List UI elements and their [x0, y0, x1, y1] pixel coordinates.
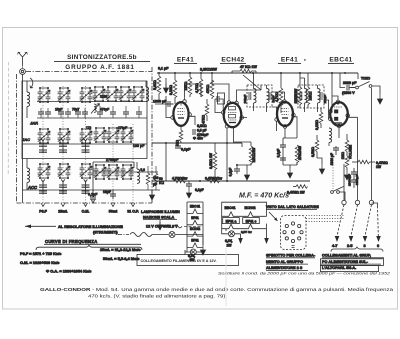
tube ECH42 V2 [221, 101, 243, 128]
svg-text:0,47MΩ/1w: 0,47MΩ/1w [205, 177, 223, 181]
svg-text:47 KΩ 1W: 47 KΩ 1W [240, 65, 257, 69]
volume potentiometer 1M [341, 134, 353, 180]
grid resistor 0,1M [169, 73, 177, 104]
trimmer bank row1 g [132, 86, 145, 102]
trimmer bank row3 f [121, 127, 134, 143]
AVC arrow [163, 78, 168, 93]
antenna terminal [20, 69, 26, 75]
fil box EF41c [243, 218, 260, 224]
svg-text:12 V OPPURE 6 V: 12 V OPPURE 6 V [146, 225, 178, 229]
fil box EF41a [223, 218, 240, 224]
trimmer bank row4 a [38, 163, 51, 179]
svg-text:EF41: EF41 [177, 57, 194, 64]
svg-text:EF41: EF41 [191, 216, 199, 220]
svg-text:172: 172 [86, 126, 92, 130]
IF value resistor 0,47M [287, 185, 308, 195]
svg-text:P6.F: P6.F [39, 210, 47, 214]
svg-text:EF41 c: EF41 c [246, 219, 257, 223]
svg-text:1000 pF: 1000 pF [153, 100, 167, 104]
svg-text:0,1MΩ 1W: 0,1MΩ 1W [209, 152, 213, 169]
svg-text:GALLO-CONDOR - Mod. 54. Una ga: GALLO-CONDOR - Mod. 54. Una gamma onde m… [40, 287, 393, 292]
svg-text:50mt. = 5,5-6,4 Mc/s: 50mt. = 5,5-6,4 Mc/s [103, 256, 139, 261]
EF41 stage wiring group [166, 84, 208, 146]
oscillator coil box [93, 162, 134, 197]
svg-text:100pF: 100pF [294, 94, 298, 103]
curve di frequenza label [44, 239, 141, 244]
dial lamp wire [118, 235, 203, 246]
dial lamp [169, 232, 175, 238]
svg-text:VISTO DAL LATO SALDATURE: VISTO DAL LATO SALDATURE [266, 205, 319, 209]
trimmer bank row3 e [107, 127, 120, 143]
SKELETON6 [152, 137, 310, 199]
wire bus corner down [357, 73, 359, 79]
svg-text:2700pF: 2700pF [106, 158, 119, 162]
AVC cap 0,1uF [175, 142, 191, 152]
filament ladder box [187, 202, 203, 252]
label EF41 first [174, 57, 197, 64]
filament EBC41 [187, 205, 203, 214]
svg-text:15KΩ: 15KΩ [309, 91, 313, 100]
osc gang section C5 [59, 179, 67, 194]
svg-text:KΩ: KΩ [159, 181, 164, 185]
osc gang section C6 [82, 179, 90, 194]
mains switch [331, 187, 345, 201]
svg-text:AL REGOLATORE ILLUMINAZIONE: AL REGOLATORE ILLUMINAZIONE [58, 224, 123, 229]
parallel filament box [222, 202, 267, 229]
wire osc diagonal [243, 75, 261, 90]
coupling caps 10000pF [348, 168, 360, 188]
decoupling arrow [149, 190, 154, 200]
svg-text:Sostituire il cond. da 2000 pF: Sostituire il cond. da 2000 pF con uno d… [218, 272, 391, 276]
antenna [18, 52, 28, 68]
ladder pilot lamp [188, 249, 203, 262]
pushbutton 50mt [109, 203, 118, 214]
oscillator coil L2 [27, 159, 30, 191]
resistor 15K [306, 73, 312, 108]
socket pointer arrow [269, 212, 278, 221]
EF41 IF stage resistors group [272, 92, 302, 178]
fil hump row2 a [225, 224, 237, 229]
filament ECH42 [187, 227, 203, 236]
svg-text:5,6: 5,6 [140, 168, 145, 172]
bottom left text group [222, 202, 269, 247]
junction dots bus [158, 72, 346, 74]
fil hump row1 b [245, 212, 257, 217]
svg-text:22KΩ/1W: 22KΩ/1W [252, 147, 256, 162]
tuning gang dotted link lines [43, 86, 133, 206]
trimmer bank row3 c [80, 128, 93, 144]
svg-text:100: 100 [153, 176, 159, 180]
svg-text:GRUPPO A.F. 1881: GRUPPO A.F. 1881 [65, 64, 134, 71]
SKELETON8 [266, 205, 384, 272]
dial lamp circuit group [185, 202, 203, 262]
label EBC41 [328, 57, 354, 64]
scan fold line left [7, 62, 10, 175]
regolatore arrow line [25, 225, 56, 229]
AGC line wire [152, 180, 310, 182]
trimmer bank row1 a [38, 87, 51, 103]
spinotto text block [266, 254, 316, 271]
svg-text:5,6KΩ: 5,6KΩ [153, 80, 157, 90]
B+ top bus wire [157, 72, 358, 74]
svg-text:COLLEGAMENTI AL GRUP,: COLLEGAMENTI AL GRUP, [322, 254, 371, 258]
svg-text:75μT: 75μT [72, 108, 79, 112]
tone cap 2000 pF [340, 73, 357, 95]
svg-text:0,1MΩ: 0,1MΩ [315, 120, 319, 130]
trimmer bank row1 f [119, 86, 132, 102]
svg-text:SPINOTTO PER COLLEGA-: SPINOTTO PER COLLEGA- [266, 254, 316, 258]
svg-text:25mt.: 25mt. [58, 210, 67, 214]
svg-text:JAF.: JAF. [30, 121, 38, 126]
svg-text:MENTO AL GRUPPO: MENTO AL GRUPPO [266, 260, 303, 264]
tuning gang section C1 [39, 138, 47, 153]
screen resistor 5,6K [153, 73, 161, 101]
plug pin 1 [342, 200, 346, 204]
svg-text:EBC41: EBC41 [329, 57, 352, 64]
svg-text:JAC: JAC [22, 137, 30, 142]
svg-text:Φ O.A. = 1380÷1054 Kc/s: Φ O.A. = 1380÷1054 Kc/s [46, 269, 91, 274]
AVC bus wire [152, 142, 242, 144]
45V label [193, 137, 203, 141]
fil hump row1 a [225, 212, 237, 217]
plug pin 3 [369, 200, 373, 204]
svg-text:L'ALTOPARL 5N-A.: L'ALTOPARL 5N-A. [322, 266, 356, 270]
svg-text:270pF: 270pF [118, 126, 127, 130]
scan fold line [225, 248, 227, 306]
collegamenti text block [321, 254, 385, 272]
coupling arrow [30, 78, 33, 88]
tuner enclosure group [22, 81, 160, 197]
AVC and AGC bus group [331, 88, 383, 252]
IF transformer T2 [294, 78, 328, 112]
screen resistor 22K/1W EF41b [275, 73, 283, 113]
dial lamp resistor [130, 233, 152, 237]
svg-text:110pF: 110pF [323, 95, 327, 104]
ladder ground [185, 250, 187, 255]
AF coupling resistor 0,47M [352, 160, 388, 169]
trimmer bank row1 e [106, 86, 119, 102]
plate resistor 4,7K [195, 73, 203, 97]
ECH42 stage components group [212, 80, 261, 143]
fil hump row2 b [245, 224, 257, 229]
cathode cap 0,1uF [229, 164, 241, 176]
tuning gang section C2 [59, 138, 67, 153]
wire antenna down [22, 74, 24, 203]
padder resistor 5,6K [140, 166, 149, 190]
svg-text:0,1MΩ: 0,1MΩ [169, 85, 173, 95]
svg-text:8: 8 [364, 244, 366, 248]
main supply bus group [157, 72, 358, 74]
RF coil L3 [146, 81, 149, 101]
svg-text:e: e [304, 58, 306, 62]
svg-text:EF41 a: EF41 a [226, 219, 237, 223]
trimmer bank row1 b [58, 87, 71, 103]
svg-text:TONO: TONO [361, 77, 371, 81]
svg-text:5000pF: 5000pF [355, 175, 359, 186]
cap 16uF [103, 190, 116, 199]
AF coil [329, 128, 332, 146]
svg-text:16μF: 16μF [103, 190, 111, 194]
svg-text:EBC41: EBC41 [190, 205, 201, 209]
dashed enclosure SINTONIZZATORE group [17, 67, 153, 203]
SKELETON7 [118, 210, 206, 255]
tone switch [351, 77, 381, 95]
svg-text:ECH42: ECH42 [190, 227, 201, 231]
svg-text:LAMPADINE ILLUMIN: LAMPADINE ILLUMIN [141, 210, 180, 214]
osc grid resistor 47K [202, 99, 209, 124]
svg-text:31 C.P.: 31 C.P. [127, 210, 139, 214]
plate resistor EF41b [294, 73, 302, 108]
arrow to lamps [157, 220, 162, 230]
SKELETON4 [202, 65, 276, 124]
trimmer bank row4 d [94, 164, 107, 180]
grid cap osc [215, 96, 223, 104]
cap 3300pF [330, 146, 339, 165]
wire AVC left down [165, 143, 167, 181]
svg-text:0,1 μF: 0,1 μF [158, 67, 169, 71]
svg-text:P6.F = 1571 ÷ 725 Kc/s: P6.F = 1571 ÷ 725 Kc/s [20, 251, 61, 256]
fil pilot lamp 6,3V 2W [222, 229, 241, 248]
svg-text:SINTONIZZATORE.5b: SINTONIZZATORE.5b [67, 54, 137, 61]
trimmer bank row1 c [80, 87, 93, 103]
filament EF41 [187, 216, 203, 225]
tuner inner bus wires [22, 102, 160, 191]
svg-text:3300 pF: 3300 pF [330, 153, 334, 165]
switch ground arrow [377, 94, 382, 104]
svg-text:0,1μF: 0,1μF [195, 188, 204, 192]
wires ECH42 group [275, 73, 313, 113]
svg-text:200pF: 200pF [243, 94, 247, 103]
label ECH42 [220, 57, 246, 64]
trimmer bank row3 a [38, 128, 51, 144]
cathode resistor 22K/1W [249, 142, 256, 165]
pot wiper dotted [332, 157, 334, 189]
filament EF41 b [187, 238, 203, 247]
svg-text:pF: pF [153, 183, 157, 187]
svg-text:25mt. = 11,2-12,2 Mc/s: 25mt. = 11,2-12,2 Mc/s [100, 247, 141, 252]
socket outline [281, 216, 307, 250]
plug leads dashed [337, 205, 378, 236]
svg-text:(STRUMENTI): (STRUMENTI) [93, 231, 118, 235]
wires ECH42 [212, 80, 261, 143]
svg-text:470pF: 470pF [100, 108, 109, 112]
tuning gang section C3 [82, 138, 90, 153]
AGC resistor 0,47M [199, 177, 223, 183]
svg-text:(1500 V: (1500 V [342, 91, 355, 95]
tube EF41 V3 [275, 100, 295, 128]
wire plate EF41 to bus [185, 84, 202, 97]
EBC41 stage wiring group [311, 73, 388, 200]
svg-text:6,3V 4w: 6,3V 4w [241, 230, 252, 234]
AGC cap ground [186, 181, 204, 198]
trimmer bank row1 d [93, 86, 106, 102]
svg-text:COLLEGAMENTO FILAMENTI A 6V: COLLEGAMENTO FILAMENTI A 6V E A 12V. [141, 259, 217, 263]
diode load 0,5M [311, 135, 325, 174]
SKELETON3 [39, 203, 139, 214]
output verticals to plug [344, 88, 378, 206]
fil arrows [238, 238, 269, 244]
wire grid EF41 [166, 96, 174, 118]
plug pin 2 [355, 200, 359, 204]
antenna input section [17, 52, 153, 203]
waveband pushbutton row [153, 67, 346, 108]
socket pins [283, 222, 303, 248]
svg-text:6: 6 [377, 244, 379, 248]
resistor 47K left of ECH42 [206, 73, 214, 99]
wires EBC41 [324, 73, 358, 138]
svg-text:PO ALIMENTATORE SUL-: PO ALIMENTATORE SUL- [322, 260, 369, 264]
dial lamps label [141, 210, 180, 220]
osc gang section C4 [39, 179, 47, 194]
svg-text:VOLUME: VOLUME [349, 144, 353, 159]
plug lead arrows [335, 236, 381, 242]
tube EBC41 V4 [329, 100, 350, 128]
socket view label [266, 205, 319, 209]
coupling cap 1000pF [153, 100, 174, 108]
svg-text:O.M.: O.M. [82, 210, 90, 214]
svg-text:2000 pF: 2000 pF [343, 81, 357, 85]
svg-text:0,5 μF: 0,5 μF [197, 129, 207, 133]
wires EF41b [272, 92, 297, 138]
svg-text:100 pF: 100 pF [133, 144, 145, 148]
cathode bypass 2700pF [190, 116, 209, 137]
coupling coil MC [91, 104, 100, 114]
svg-text:50mt: 50mt [109, 210, 118, 214]
antenna coil L1 [27, 81, 30, 118]
svg-text:0,1μF: 0,1μF [277, 149, 281, 158]
trimmer bank row4 b [58, 163, 71, 179]
svg-text:2130: 2130 [100, 95, 107, 99]
svg-text:10000pF: 10000pF [348, 174, 352, 186]
svg-text:270Ω/4W: 270Ω/4W [298, 145, 302, 160]
svg-text:4-7: 4-7 [332, 244, 338, 248]
svg-text:EBC41: EBC41 [225, 206, 236, 210]
title SINTONIZZATORE-5b [54, 54, 150, 61]
svg-text:47KΩ: 47KΩ [206, 84, 210, 93]
svg-text:4,7KΩ: 4,7KΩ [275, 92, 279, 102]
tuner component bank group [22, 86, 164, 206]
trimmer bank row3 d [94, 127, 107, 143]
svg-text:O.M. = 1620÷530 Kc/s: O.M. = 1620÷530 Kc/s [20, 260, 59, 265]
svg-text:CURVE DI FREQUENZA: CURVE DI FREQUENZA [45, 239, 98, 244]
lamp ground arrow [200, 245, 205, 255]
IF transformer T1 [243, 73, 276, 112]
svg-text:Φ 45v: Φ 45v [193, 137, 203, 141]
label EF41 second [278, 57, 306, 64]
svg-text:ECH42: ECH42 [221, 57, 244, 64]
svg-text:15μF: 15μF [55, 108, 62, 112]
padder resistor 6,8K [154, 166, 164, 190]
filament caption box [137, 255, 239, 266]
svg-text:M.F. = 470 Kc/s: M.F. = 470 Kc/s [239, 191, 289, 200]
svg-text:47KΩ: 47KΩ [202, 115, 206, 124]
pushbutton 25mt [58, 203, 67, 214]
svg-text:EF41: EF41 [281, 57, 298, 64]
padder capacitors row2 [38, 108, 51, 118]
AVC resistor 0,1M 1W [209, 143, 217, 181]
RF coil box [22, 81, 147, 159]
svg-text:470 kc/s. (V. stadio finale ed: 470 kc/s. (V. stadio finale ed alimentat… [88, 294, 227, 299]
brace frequenza [36, 245, 142, 250]
svg-text:2-5: 2-5 [347, 244, 353, 248]
ECH42 cathode wires [227, 143, 242, 181]
output plug group [20, 224, 202, 274]
AGC resistor 4,7M [172, 177, 188, 183]
SKELETON5 [294, 73, 383, 112]
screen cap [184, 73, 192, 97]
svg-text:2,2KΩ/2W: 2,2KΩ/2W [200, 68, 217, 72]
svg-text:0,1μF: 0,1μF [229, 168, 233, 177]
cathode loop EF41b [277, 138, 303, 178]
svg-text:ECH42: ECH42 [245, 206, 256, 210]
brace [331, 247, 383, 252]
svg-text:0,47MΩ 1W: 0,47MΩ 1W [287, 191, 306, 195]
svg-text:0,5MΩ: 0,5MΩ [311, 147, 315, 157]
plug lead labels [332, 244, 379, 248]
tube EF41 V1 [171, 97, 192, 126]
svg-text:1MΩ: 1MΩ [341, 152, 345, 160]
pushbutton O.M. [82, 203, 90, 214]
svg-text:NAZIONE SCALA: NAZIONE SCALA [143, 216, 174, 220]
osc padder coil L4 [137, 162, 140, 183]
trimmer bank row4 c [80, 163, 93, 179]
svg-text:ALIMENTATORE 2 S: ALIMENTATORE 2 S [266, 266, 303, 270]
pushbutton 31 C.P. [127, 203, 139, 214]
bypass cap 0,1uF [88, 190, 98, 203]
trimmer bank row3 b [58, 128, 71, 144]
plate resistor 47K 1W ECH42 [232, 65, 257, 73]
trimmer box [218, 93, 225, 104]
svg-text:EF41: EF41 [191, 238, 199, 242]
pushbutton P6.F [39, 203, 47, 214]
cathode resistor 47 [176, 126, 183, 147]
svg-text:0,1μF: 0,1μF [181, 148, 191, 152]
plate load resistor 0,1M [315, 108, 323, 130]
trimmer bank row4 e [107, 164, 120, 180]
ground arrow cathode [237, 163, 251, 180]
svg-text:ACC: ACC [27, 185, 38, 190]
cable dotted band [306, 216, 345, 222]
trimmer bank row4 f [121, 164, 134, 180]
